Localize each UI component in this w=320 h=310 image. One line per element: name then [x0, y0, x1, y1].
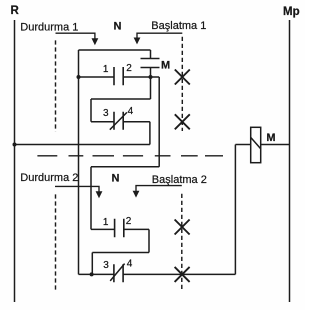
- rail Mp: [289, 20, 291, 302]
- wire left edge block1 down to block2 bottom: [78, 50, 80, 274]
- wire top block2: [91, 166, 159, 168]
- svg-text:Başlatma 1: Başlatma 1: [151, 20, 206, 32]
- wire right edge block1 down: [158, 77, 160, 167]
- svg-text:N: N: [112, 173, 120, 185]
- wire riser to relay: [234, 145, 236, 275]
- wire top block1: [79, 49, 151, 51]
- wire jog right drop block2: [148, 229, 150, 252]
- wire 3-4 right drop block1: [149, 122, 151, 145]
- mech link X2: [175, 114, 190, 129]
- contact 1-2 block2 plates: [115, 219, 124, 237]
- dashed separator line: [37, 155, 223, 157]
- svg-text:R: R: [11, 5, 20, 17]
- wire relay feed left: [235, 144, 250, 146]
- svg-text:Mp: Mp: [283, 6, 300, 18]
- svg-text:4: 4: [127, 259, 133, 270]
- svg-text:M: M: [266, 132, 275, 144]
- leader Durdurma 2: [55, 186, 99, 192]
- leader Durdurma 1: [56, 33, 95, 39]
- svg-text:3: 3: [103, 260, 109, 271]
- dashed link Durdurma 2: [55, 194, 57, 291]
- svg-text:2: 2: [126, 63, 132, 74]
- wire B block1: [91, 98, 151, 100]
- wire relay to Mp: [261, 144, 290, 146]
- junction dot rail R: [13, 143, 17, 147]
- svg-text:2: 2: [126, 216, 132, 227]
- wire C block1 (3-4 row): [91, 121, 150, 123]
- svg-text:3: 3: [103, 108, 109, 119]
- svg-text:Başlatma 2: Başlatma 2: [152, 174, 207, 186]
- junction node B block1 right: [149, 75, 153, 79]
- wire 1-2 row block2: [91, 228, 149, 230]
- wire bottom of block 1 from R rail: [15, 144, 150, 146]
- svg-text:M: M: [161, 59, 170, 71]
- svg-text:N: N: [114, 21, 122, 33]
- junction node A block1 left: [77, 75, 81, 79]
- mech link X1: [175, 70, 190, 85]
- leader Baslatma 2: [136, 186, 182, 192]
- wire jog left drop block2: [91, 253, 93, 275]
- svg-text:1: 1: [103, 64, 109, 75]
- leader Baslatma 1: [137, 33, 182, 38]
- relay M coil diagonal: [251, 137, 261, 148]
- wire left edge block2: [90, 167, 92, 230]
- contact M seal-in stem upper: [150, 50, 152, 99]
- svg-text:1: 1: [103, 217, 109, 228]
- contact 3-4 block2 plates: [114, 264, 123, 282]
- wire jog horizontal block2: [92, 252, 149, 254]
- contact M seal-in plates: [141, 59, 160, 68]
- mech link X4: [175, 267, 190, 282]
- dashed link Baslatma 1: [181, 37, 183, 131]
- dashed link Baslatma 2: [181, 194, 183, 292]
- wire 3-4 row block2: [79, 273, 236, 275]
- contact 3-4 block2 NC slash: [110, 264, 124, 281]
- contact 3-4 block1 plates: [114, 112, 123, 130]
- svg-text:Durdurma 1: Durdurma 1: [20, 22, 78, 34]
- svg-text:4: 4: [128, 106, 134, 117]
- rail R: [14, 20, 16, 302]
- dashed link Durdurma 1: [55, 40, 57, 131]
- svg-text:Durdurma 2: Durdurma 2: [20, 172, 78, 184]
- relay M coil box: [251, 127, 261, 162]
- contact 3-4 block1 NC slash: [110, 112, 127, 129]
- contact 1-2 block1 plates: [114, 67, 123, 85]
- mech link X3: [175, 220, 190, 235]
- wire branch vertical block1: [90, 99, 92, 122]
- wire A block1: [79, 76, 160, 78]
- junction node block2: [90, 272, 94, 276]
